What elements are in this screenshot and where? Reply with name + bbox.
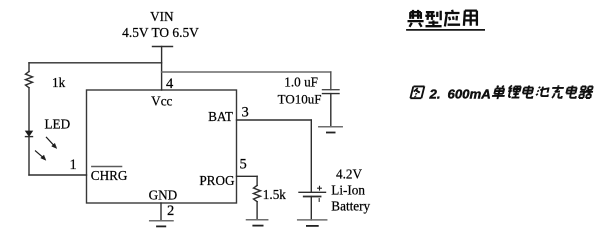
ground under C1	[319, 127, 342, 133]
glyph 应	[445, 10, 460, 27]
glyph 典	[408, 10, 424, 27]
svg-text:LED: LED	[45, 117, 71, 132]
wire pin 5 PROG	[237, 175, 258, 177]
IC U1 body	[87, 90, 237, 203]
glyph 电 second (italic)	[565, 86, 578, 98]
glyph 型	[425, 11, 441, 26]
glyph 图 (italic)	[410, 86, 424, 98]
svg-text:Vcc: Vcc	[151, 94, 172, 109]
svg-text:2.: 2.	[429, 86, 441, 101]
svg-text:2: 2	[167, 203, 174, 219]
VIN supply terminal bar	[153, 46, 173, 48]
LED light arrow 1	[46, 137, 56, 148]
glyph 电 first (italic)	[522, 86, 535, 98]
wire down to R2	[256, 176, 258, 185]
svg-text:VIN: VIN	[150, 9, 174, 24]
wire pin 2 GND	[160, 203, 162, 221]
wire R1 to LED	[28, 88, 30, 131]
svg-text:PROG: PROG	[199, 173, 235, 188]
ground under pin 2	[150, 221, 173, 227]
glyph 器 (italic)	[578, 86, 594, 98]
svg-text:4.5V TO 6.5V: 4.5V TO 6.5V	[122, 25, 199, 40]
svg-text:3: 3	[242, 105, 249, 121]
battery minus tick	[318, 199, 320, 202]
LED cathode bar	[26, 136, 33, 138]
svg-text:BAT: BAT	[208, 109, 233, 124]
wire down to battery BT1	[310, 120, 312, 192]
wire VIN node to capacitor C1	[162, 71, 331, 73]
wire battery to ground	[310, 197, 312, 220]
svg-text:4: 4	[166, 76, 174, 92]
resistor R1 1k zigzag	[26, 72, 33, 88]
svg-text:CHRG: CHRG	[91, 168, 128, 183]
battery BT1 positive plate	[299, 191, 326, 193]
wire C1 to ground	[330, 94, 332, 127]
svg-text:Battery: Battery	[331, 198, 370, 213]
svg-text:1.0 uF: 1.0 uF	[284, 75, 318, 90]
wire pin 3 BAT	[237, 119, 312, 121]
title 典型应用 (hand-drawn glyphs)	[408, 10, 477, 27]
battery plus sign	[318, 186, 322, 190]
wire down to R1	[28, 63, 30, 72]
LED D1 diode triangle	[26, 131, 33, 136]
title underline	[406, 29, 485, 31]
svg-text:600mA: 600mA	[448, 86, 491, 101]
LED light arrow 2	[36, 151, 46, 160]
svg-text:1k: 1k	[52, 75, 66, 90]
wire pin 1 horizontal	[29, 174, 87, 176]
CHRG overline	[92, 166, 122, 168]
glyph 用	[464, 11, 477, 26]
svg-text:GND: GND	[149, 188, 178, 203]
svg-text:1.5k: 1.5k	[263, 187, 286, 202]
wire VIN terminal to pin 4	[161, 47, 163, 91]
ground under battery	[298, 220, 327, 226]
capacitor C1 bottom plate	[323, 93, 340, 95]
wire LED to pin 1 corner	[28, 137, 30, 175]
svg-text:TO10uF: TO10uF	[278, 92, 322, 107]
resistor R2 1.5k zigzag	[254, 185, 261, 201]
glyph 充 (italic)	[550, 85, 564, 98]
wire VIN node to resistor R1 branch	[29, 62, 162, 64]
svg-text:Li-Ion: Li-Ion	[331, 183, 365, 198]
ground under R2	[247, 220, 268, 226]
svg-text:5: 5	[240, 157, 247, 173]
capacitor C1 top plate	[323, 89, 340, 91]
wire R2 to ground	[256, 202, 258, 220]
glyph 锂 (italic)	[507, 85, 522, 97]
svg-text:4.2V: 4.2V	[336, 167, 362, 182]
glyph 单 (italic)	[491, 86, 506, 100]
glyph 池 (italic)	[536, 87, 550, 97]
svg-text:1: 1	[70, 157, 77, 173]
battery BT1 negative plate	[304, 196, 321, 198]
wire down to C1 top plate	[330, 72, 332, 90]
